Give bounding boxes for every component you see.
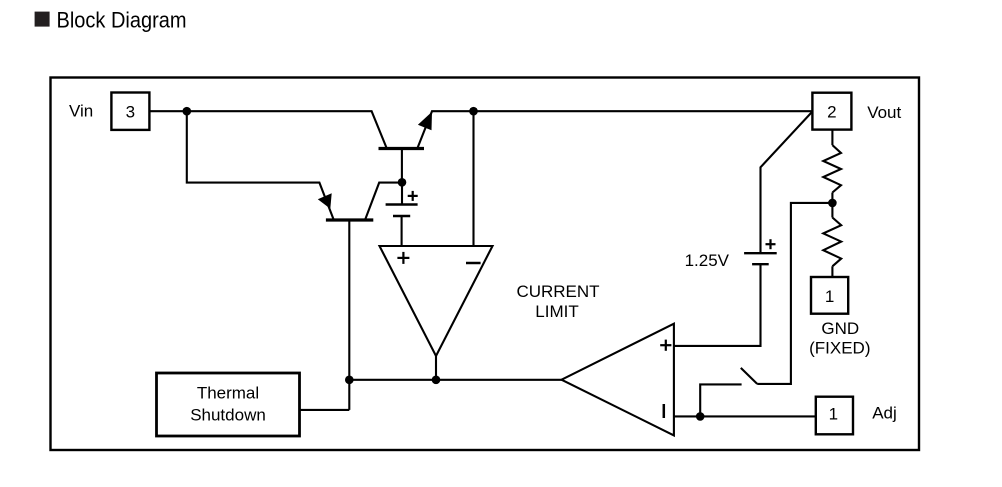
svg-text:LIMIT: LIMIT bbox=[535, 302, 578, 321]
svg-text:Vout: Vout bbox=[867, 103, 901, 122]
svg-text:Adj: Adj bbox=[872, 403, 897, 422]
svg-text:Vin: Vin bbox=[69, 102, 93, 121]
svg-text:GND: GND bbox=[821, 319, 859, 338]
svg-text:CURRENT: CURRENT bbox=[516, 282, 599, 301]
svg-text:1.25V: 1.25V bbox=[685, 251, 730, 270]
svg-text:1: 1 bbox=[829, 405, 838, 424]
svg-text:2: 2 bbox=[827, 102, 836, 121]
svg-text:Thermal: Thermal bbox=[197, 384, 259, 403]
svg-text:1: 1 bbox=[825, 287, 834, 306]
svg-text:3: 3 bbox=[126, 102, 135, 121]
svg-text:Shutdown: Shutdown bbox=[190, 406, 266, 425]
svg-text:Block Diagram: Block Diagram bbox=[57, 7, 187, 32]
svg-text:(FIXED): (FIXED) bbox=[809, 338, 870, 357]
